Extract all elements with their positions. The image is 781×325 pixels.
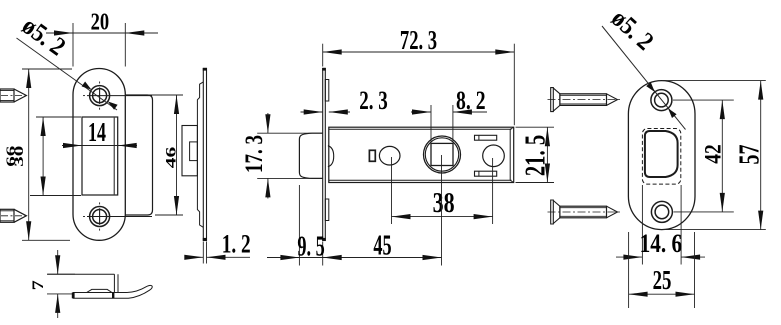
left view bolt opening rect (14x30)	[82, 117, 118, 195]
dim 57 extension lines	[663, 80, 766, 82]
svg-text:72. 3: 72. 3	[400, 25, 437, 55]
latch body inner bottom line	[329, 179, 512, 181]
middle faceplate end caps	[322, 68, 326, 71]
screw hole top-left inner circle	[93, 89, 107, 103]
bolt guide bump behind plate	[328, 146, 334, 167]
leader line dia5.2 left	[17, 38, 118, 110]
dim 38 extension lines	[391, 157, 393, 224]
latch body inner top line	[329, 128, 512, 130]
bottom view bolt bump (trapezoid)	[87, 289, 112, 292]
dim 2.3 line with outside arrows	[301, 111, 323, 113]
dim 9.5 line with outside arrows	[267, 257, 299, 259]
dim 72.3 line with arrows	[323, 51, 515, 53]
dim 30 line with arrows	[42, 117, 44, 196]
label dia5.2 left (rotated along leader)	[17, 11, 71, 61]
dim 14.6 extension lines	[641, 185, 643, 265]
dim 42 line with arrows	[721, 100, 723, 212]
spindle square hole (8.2)	[431, 143, 453, 165]
leader line dia5.2 right	[602, 26, 686, 130]
mounting screw left-bottom	[0, 209, 14, 222]
svg-text:1. 2: 1. 2	[222, 230, 251, 259]
svg-text:45: 45	[373, 230, 391, 261]
dim 20 line with outside arrows	[46, 32, 158, 34]
top-left hole crosshair horizontal / centerline to body	[87, 95, 152, 97]
slot top right	[475, 135, 497, 140]
side view bolt step	[190, 142, 198, 161]
screw hole bottom-left outer circle	[90, 207, 110, 227]
mounting screw right-bottom	[551, 200, 554, 224]
leader arrows dia5.2 right	[646, 82, 655, 92]
middle screw boss tab bottom	[325, 199, 329, 221]
dim 17.3 extension lines	[257, 132, 323, 134]
svg-text:25: 25	[653, 265, 672, 295]
oval hole in body	[379, 146, 400, 165]
small square hole in body	[369, 150, 375, 161]
side view body profile with screw bosses	[197, 82, 203, 227]
dim 46 line with arrows	[176, 95, 178, 215]
dim 66 extension lines	[22, 68, 72, 70]
screw hole bottom-left inner circle	[93, 210, 107, 224]
bottom view riser double line	[113, 274, 115, 292]
bottom view spring hook curve	[127, 285, 153, 298]
left view bolt opening inner edge	[113, 118, 115, 195]
dim 72.3 extension lines	[322, 44, 324, 67]
dim 57 line with arrows	[760, 81, 762, 230]
dim 25 extension lines	[628, 232, 630, 308]
dim 25 line with arrows	[629, 293, 695, 295]
dim 1.2 extension lines	[202, 242, 204, 264]
svg-text:30: 30	[11, 146, 26, 167]
dim 21.5 extension lines	[516, 126, 555, 128]
middle screw boss tab top	[325, 80, 329, 102]
side view faceplate end caps	[203, 68, 207, 71]
left view latch body behind plate (46 high)	[125, 95, 152, 215]
dim 38 line with arrows	[392, 216, 493, 218]
dust box hidden outline (dashed rect 14.6 x 21.5)	[642, 129, 680, 185]
left view faceplate outline (stadium plate 20x66)	[73, 69, 125, 241]
strike plate top hole outer	[651, 90, 672, 111]
svg-text:21. 5: 21. 5	[521, 135, 552, 176]
svg-text:7: 7	[30, 280, 47, 290]
side view faceplate (1.2 thick)	[203, 69, 206, 241]
dim 45/9.5 extension line (faceplate)	[322, 242, 324, 266]
dim 9.5 extension line (bolt face)	[298, 185, 300, 266]
slot bottom right	[475, 171, 497, 176]
top-left hole crosshair vertical	[99, 87, 101, 104]
mounting screw right-top	[551, 88, 554, 112]
screw hole top-left outer circle	[90, 86, 110, 106]
svg-text:14: 14	[88, 117, 106, 147]
dim 20 extension lines	[72, 23, 74, 67]
bottom view plate strip	[73, 292, 127, 294]
latch hole (D shape)	[645, 131, 678, 177]
dim 46 extension lines	[147, 94, 183, 96]
svg-text:42: 42	[701, 144, 726, 164]
strike plate bottom hole inner	[655, 205, 669, 219]
svg-text:14. 6: 14. 6	[640, 229, 683, 258]
dim 14 line with outside arrows	[62, 145, 137, 147]
dim 7 line with outside arrows	[57, 250, 59, 274]
dim 42 extension lines	[673, 99, 734, 101]
dim 30 extension lines	[36, 116, 81, 118]
svg-text:8. 2: 8. 2	[456, 86, 486, 115]
svg-text:2. 3: 2. 3	[359, 86, 388, 115]
dim 66 line with arrows	[28, 69, 30, 240]
latch bolt (middle view)	[299, 133, 322, 178]
leader arrows dia5.2 left	[82, 82, 92, 90]
strike plate bottom hole outer	[651, 201, 672, 222]
svg-text:20: 20	[91, 10, 110, 36]
side view bolt protrusion	[182, 126, 197, 176]
strike plate outline (25x57 stadium)	[628, 81, 695, 230]
strike plate top hole inner	[655, 93, 669, 107]
spindle hub inner circle	[425, 138, 458, 171]
dim 7 extension lines	[47, 273, 75, 275]
spindle hub outer circle	[424, 136, 461, 173]
dim 17.3 line with outside arrows	[267, 113, 269, 133]
label dia5.2 right (rotated along leader)	[606, 4, 660, 56]
dim 45 line with arrows	[299, 257, 441, 259]
bottom view top line	[47, 273, 114, 275]
dim 45 extension line (spindle center)	[441, 155, 443, 266]
bottom-left hole crosshair vertical	[99, 208, 101, 225]
svg-text:57: 57	[735, 145, 766, 165]
dim 1.2 line with outside arrows	[187, 256, 203, 258]
dim 8.2 line with outside arrows	[411, 111, 431, 113]
dim 8.2 extension lines	[430, 105, 432, 142]
svg-text:38: 38	[433, 188, 455, 219]
mounting screw left-top	[0, 89, 14, 102]
latch body tube (21.5 high)	[329, 127, 514, 182]
fixing circle hole right	[483, 145, 505, 167]
middle faceplate (edge-on, 66 tall)	[323, 69, 326, 241]
bottom-left hole crosshair horizontal / centerline to body	[87, 216, 152, 218]
latch body inner end line	[509, 129, 511, 180]
dim 21.5 line with arrows	[546, 127, 548, 182]
dim 14.6 line with outside arrows	[616, 256, 642, 258]
svg-text:17. 3: 17. 3	[241, 135, 268, 173]
svg-text:46: 46	[164, 147, 180, 168]
svg-text:9. 5: 9. 5	[297, 231, 324, 262]
